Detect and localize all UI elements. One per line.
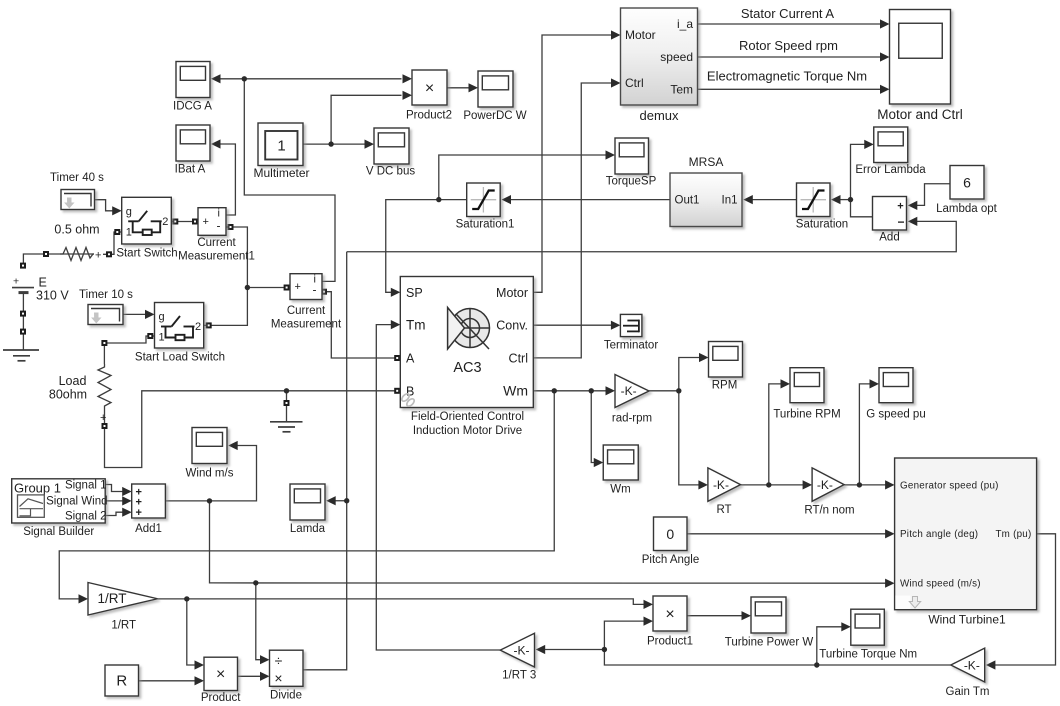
node rad-rpm output branch — [676, 388, 681, 393]
svg-text:0: 0 — [666, 526, 674, 542]
node Wm line branch 1 — [552, 388, 557, 393]
svg-text:E: E — [39, 276, 47, 290]
arrowhead into Add minus — [908, 217, 918, 226]
gain RT/n nom — [804, 468, 854, 517]
wire Gain Tm out left line — [544, 650, 951, 666]
scope Turbine RPM — [773, 368, 840, 421]
wire Product out to Divide mult input — [238, 675, 262, 677]
svg-text:speed: speed — [660, 50, 693, 64]
svg-text:Terminator: Terminator — [604, 340, 658, 352]
switch Start Switch — [116, 197, 177, 259]
svg-text:Tm (pu): Tm (pu) — [995, 529, 1031, 540]
svg-text:PowerDC W: PowerDC W — [463, 110, 526, 122]
arrowhead into RT — [698, 480, 708, 489]
node Add output branch — [848, 197, 853, 202]
svg-text:g: g — [126, 206, 132, 218]
svg-text:Out1: Out1 — [675, 195, 700, 207]
svg-text:-K-: -K- — [964, 658, 980, 672]
scope Error Lambda — [855, 127, 926, 176]
svg-text:Start Switch: Start Switch — [116, 248, 177, 260]
constant 6 Lambda opt — [936, 166, 998, 216]
wire lambda junction to Lamda scope — [335, 500, 347, 502]
port square at CM1 minus — [228, 224, 234, 230]
svg-text:Turbine Torque Nm: Turbine Torque Nm — [819, 649, 917, 661]
svg-text:Group 1: Group 1 — [14, 481, 61, 496]
port square below load resistor — [102, 423, 108, 429]
wire junction down to Divide div input — [256, 583, 261, 660]
svg-text:Turbine Power W: Turbine Power W — [725, 637, 814, 649]
arrowhead into Turbine Torque Nm — [841, 622, 851, 631]
arrowhead into Add1 input 1 — [122, 487, 132, 496]
gain 1/RT — [88, 583, 158, 632]
wire demux speed to Motor and Ctrl — [698, 56, 882, 58]
arrowhead into AC3 Tm — [391, 320, 401, 329]
arrowhead into Terminator — [611, 321, 621, 330]
scope V DC bus — [366, 128, 415, 178]
svg-text:Ctrl: Ctrl — [509, 352, 528, 366]
node RT output branch — [766, 482, 771, 487]
arrowhead into Start Load Switch g — [145, 310, 155, 319]
arrowhead into Wind Turbine1 generator speed — [885, 480, 895, 489]
wire signal builder s1 to Add1 — [105, 485, 124, 492]
scope Lamda — [290, 484, 326, 535]
wire CM2 i up across to IDCG junction — [244, 79, 335, 282]
node lambda feedback branch — [344, 498, 349, 503]
node CM1-CM2 junction — [245, 285, 250, 290]
terminator block Terminator — [604, 314, 658, 351]
svg-text:IBat A: IBat A — [175, 164, 206, 176]
gain RT — [708, 468, 741, 516]
svg-text:Product1: Product1 — [647, 636, 693, 648]
arrowhead into IDCG A — [211, 74, 221, 83]
arrowhead into demux Ctrl — [611, 78, 621, 87]
svg-text:×: × — [665, 606, 674, 623]
svg-text:−: − — [897, 215, 904, 229]
arrowhead into Motor and Ctrl 3 — [880, 85, 890, 94]
wire 1-RT out line to Product1 input1 — [158, 599, 645, 605]
svg-text:1: 1 — [277, 138, 285, 155]
wire start load switch port1 to load resistor — [104, 336, 154, 364]
svg-text:SP: SP — [406, 286, 423, 300]
svg-text:Wind m/s: Wind m/s — [186, 468, 234, 480]
scope Wind m/s — [186, 428, 234, 480]
svg-text:+: + — [100, 412, 106, 424]
multimeter block Multimeter — [253, 123, 309, 180]
scope TorqueSP — [606, 138, 657, 188]
svg-text:Add: Add — [879, 232, 899, 244]
svg-text:×: × — [425, 80, 434, 97]
wire battery minus to ground — [22, 292, 24, 350]
svg-text:-K-: -K- — [817, 478, 833, 492]
port square at CM1 plus — [192, 219, 198, 225]
arrowhead into Product input 1 — [195, 660, 205, 669]
wire AC3 Wm output line — [533, 390, 607, 392]
svg-text:Current: Current — [197, 237, 236, 249]
ground (load line) — [270, 422, 303, 432]
wire junction down to Product input1 — [187, 599, 196, 665]
svg-text:Signal Builder: Signal Builder — [23, 526, 94, 538]
svg-text:1/RT 3: 1/RT 3 — [502, 670, 536, 682]
wire battery top to resistor — [23, 254, 94, 266]
wire junction up to Product1 input2 — [604, 621, 644, 649]
product block Product2 — [406, 70, 452, 122]
wire Product2 to PowerDC W — [447, 87, 469, 89]
node IDCG/Product2 branch — [242, 76, 247, 81]
wire junction up to Turbine RPM scope — [769, 384, 782, 485]
switch Start Load Switch — [135, 303, 225, 364]
svg-text:In1: In1 — [722, 195, 738, 207]
svg-text:Signal Wind: Signal Wind — [46, 496, 107, 508]
svg-text:Saturation1: Saturation1 — [456, 219, 515, 231]
svg-text:Start Load Switch: Start Load Switch — [135, 352, 225, 364]
resistor 0.5 ohm — [54, 223, 101, 262]
sum block Add — [873, 197, 907, 244]
arrowhead into RT/n nom — [803, 480, 813, 489]
svg-text:Measurement1: Measurement1 — [178, 251, 255, 263]
svg-text:MRSA: MRSA — [689, 155, 724, 169]
arrowhead into 1/RT — [79, 594, 89, 603]
arrowhead into Wind Turbine1 wind speed — [885, 579, 895, 588]
svg-text:Timer 40 s: Timer 40 s — [50, 172, 104, 184]
scope PowerDC W — [463, 71, 526, 122]
wire IDCG junction to IDCG A scope — [218, 78, 244, 80]
arrowhead into rad-rpm — [606, 386, 616, 395]
current measurement Current Measurement1 — [178, 208, 255, 263]
arrowhead into Lamda — [326, 496, 336, 505]
port square on ground drop — [284, 400, 290, 406]
node SP/TorqueSP branch — [436, 197, 441, 202]
wire AC3 Motor to demux Motor — [533, 35, 613, 292]
wire AC3 Ctrl to demux Ctrl — [533, 83, 613, 358]
wire R to Product input2 — [139, 680, 196, 682]
wire start switch out to CM1 — [171, 221, 198, 223]
node Add1 output branch — [207, 498, 212, 503]
svg-text:Wm: Wm — [503, 383, 528, 399]
arrowhead into Product1 input 2 — [644, 617, 654, 626]
port square on load wire — [101, 340, 107, 346]
svg-text:RT/n nom: RT/n nom — [804, 505, 854, 517]
arrowhead into Wm scope — [594, 458, 604, 467]
arrowhead into Product input 2 — [195, 676, 205, 685]
wire start load switch port2 up to junction — [204, 288, 248, 326]
scope Turbine Torque Nm — [819, 609, 917, 660]
arrowhead into RPM — [699, 353, 709, 362]
svg-text:+: + — [13, 276, 19, 288]
scope G speed pu — [866, 368, 925, 421]
wire demux Tem to Motor and Ctrl — [698, 88, 882, 90]
port square battery bottom 1 — [20, 311, 26, 317]
svg-text:0.5 ohm: 0.5 ohm — [54, 223, 99, 237]
svg-text:i_a: i_a — [677, 17, 693, 31]
svg-text:Signal 1: Signal 1 — [65, 479, 107, 491]
svg-text:1: 1 — [159, 332, 165, 344]
load resistor 80ohm — [49, 364, 111, 424]
svg-text:AC3: AC3 — [453, 360, 481, 376]
wire load bottom to AC3 B port — [105, 391, 398, 468]
wire B line ground drop — [286, 391, 288, 422]
svg-text:Tm: Tm — [406, 318, 426, 333]
constant R — [105, 665, 139, 696]
arrowhead into Start Switch g — [112, 206, 122, 215]
svg-text:G speed pu: G speed pu — [866, 409, 925, 421]
arrowhead into IBat A — [211, 139, 221, 148]
wire Pitch Angle to Wind Turbine — [687, 533, 887, 535]
svg-text:Ctrl: Ctrl — [625, 76, 644, 90]
wire junction to Saturation — [840, 199, 851, 201]
scope Motor and Ctrl — [877, 10, 963, 123]
gain 1/RT 3 — [500, 633, 536, 681]
sum block Add1 — [132, 484, 166, 535]
node torque line branch — [602, 647, 607, 652]
wire demux i_a to Motor and Ctrl — [698, 23, 882, 25]
svg-text:6: 6 — [963, 174, 971, 190]
svg-text:Add1: Add1 — [135, 523, 162, 535]
saturation block Saturation — [796, 183, 848, 231]
wire Wm junction down to 1/RT — [59, 391, 554, 599]
arrowhead into TorqueSP — [606, 150, 616, 159]
svg-text:RT: RT — [716, 504, 731, 516]
arrowhead into Wind m/s — [228, 441, 238, 450]
svg-text:+: + — [295, 281, 301, 293]
svg-text:-K-: -K- — [621, 384, 637, 398]
arrowhead into AC3 SP — [391, 288, 401, 297]
svg-text:-K-: -K- — [713, 478, 729, 492]
wire junction up to RPM scope — [679, 358, 701, 391]
arrowhead into Add1 input 2 — [122, 496, 132, 505]
wire Add out to junction — [851, 200, 873, 217]
svg-text:Pitch Angle: Pitch Angle — [642, 554, 700, 566]
saturation block Saturation1 — [456, 183, 515, 231]
wire CM1 i up to IBat A — [218, 144, 236, 215]
svg-text:+: + — [95, 250, 101, 262]
svg-text:+: + — [203, 216, 209, 228]
wire Lambda opt 6 to Add plus — [916, 184, 950, 206]
scope Wm — [603, 445, 638, 496]
arrowhead into MRSA In1 — [743, 195, 753, 204]
port square at Start Switch port 2 — [172, 219, 178, 225]
constant 0 Pitch Angle — [642, 517, 700, 566]
svg-text:Error Lambda: Error Lambda — [855, 164, 926, 176]
wire junction up to G speed pu scope — [859, 384, 871, 485]
arrowhead into Saturation — [831, 195, 841, 204]
svg-text:2: 2 — [162, 216, 168, 228]
svg-text:Wind speed (m/s): Wind speed (m/s) — [900, 579, 981, 590]
svg-text:Pitch angle (deg): Pitch angle (deg) — [900, 529, 978, 540]
node turbine torque scope branch — [814, 662, 819, 667]
arrowhead into demux Motor — [611, 30, 621, 39]
port square at CM2 minus — [321, 289, 327, 295]
svg-text:+: + — [897, 201, 903, 213]
wire Wm junction down to Wm scope — [591, 391, 595, 463]
svg-text:Timer 10 s: Timer 10 s — [79, 289, 133, 301]
svg-text:Wind Turbine1: Wind Turbine1 — [928, 613, 1006, 627]
gain Gain Tm — [946, 648, 990, 698]
wire Wind Turbine Tm out down to Gain Tm — [994, 534, 1055, 665]
svg-text:Field-Oriented Control: Field-Oriented Control — [411, 411, 524, 423]
svg-text:rad-rpm: rad-rpm — [612, 413, 652, 425]
svg-text:Load: Load — [59, 374, 87, 388]
arrowhead into Motor and Ctrl 2 — [880, 52, 890, 61]
svg-text:Conv.: Conv. — [496, 319, 528, 333]
svg-text:-K-: -K- — [513, 643, 529, 657]
svg-text:Generator speed (pu): Generator speed (pu) — [900, 480, 999, 491]
svg-text:Motor: Motor — [496, 286, 528, 300]
svg-text:Tem: Tem — [670, 83, 693, 97]
svg-text:-: - — [217, 218, 221, 232]
gain rad-rpm — [612, 375, 652, 425]
svg-text:TorqueSP: TorqueSP — [606, 176, 657, 188]
arrowhead into PowerDC W — [469, 83, 479, 92]
wire signal builder s2 to Add1 — [105, 500, 124, 502]
svg-text:Gain Tm: Gain Tm — [946, 686, 990, 698]
product block Product — [201, 657, 241, 704]
svg-text:R: R — [116, 673, 127, 690]
timer block Timer 40 s — [50, 172, 104, 210]
timer block Timer 10 s — [79, 289, 133, 325]
arrowhead into Product2 input 2 — [403, 91, 413, 100]
wire IDCG junction to Product2 input1 — [244, 78, 401, 80]
scope IBat A — [175, 125, 210, 176]
wire Add1 out junction to Wind m-s scope — [165, 446, 256, 501]
scope Turbine Power W — [725, 597, 814, 649]
svg-text:Rotor Speed rpm: Rotor Speed rpm — [739, 38, 838, 53]
wire timer 10 s to start load switch g — [123, 313, 145, 315]
arrowhead into Gain Tm — [986, 660, 996, 669]
port square at AC3 B — [394, 388, 400, 394]
svg-text:2: 2 — [195, 321, 201, 333]
arrowhead into Add1 input 3 — [122, 508, 132, 517]
node Wm line branch 2 — [589, 388, 594, 393]
port square at resistor output — [106, 251, 112, 257]
arrowhead into Product1 input 1 — [644, 600, 654, 609]
wire junction down to wind speed line — [210, 501, 887, 583]
svg-text:demux: demux — [639, 108, 679, 123]
svg-text:Stator Current A: Stator Current A — [741, 6, 835, 21]
svg-text:Current: Current — [287, 305, 326, 317]
svg-text:Electromagnetic Torque Nm: Electromagnetic Torque Nm — [707, 69, 867, 84]
arrowhead into Product2 input 1 — [403, 74, 413, 83]
scope IDCG A — [173, 62, 212, 113]
arrowhead into Turbine Power W — [742, 611, 752, 620]
svg-text:Induction Motor Drive: Induction Motor Drive — [413, 425, 522, 437]
svg-text:1/RT: 1/RT — [111, 620, 136, 632]
arrowhead into Error Lambda — [864, 140, 874, 149]
signal builder block Signal Builder — [12, 479, 108, 538]
port square at CM2 plus — [284, 285, 290, 291]
wire junction up to TorqueSP — [439, 155, 606, 200]
subsystem demux — [621, 8, 698, 123]
svg-text:g: g — [159, 311, 165, 323]
subsystem MRSA — [670, 155, 742, 227]
wire timer 40 s to start switch g — [95, 200, 113, 211]
wire signal builder s3 to Add1 — [105, 512, 124, 515]
arrowhead into Wind Turbine1 pitch angle — [885, 529, 895, 538]
svg-text:1/RT: 1/RT — [97, 591, 126, 606]
arrowhead into Turbine RPM — [781, 379, 791, 388]
svg-text:Product2: Product2 — [406, 110, 452, 122]
svg-text:RPM: RPM — [712, 380, 738, 392]
arrowhead into Saturation1 — [502, 195, 512, 204]
node V DC bus branch — [328, 141, 333, 146]
svg-text:Lamda: Lamda — [290, 523, 326, 535]
port square at Start Load Switch port 1 — [147, 333, 153, 339]
svg-text:Saturation: Saturation — [796, 219, 848, 231]
node 1/RT output branch — [184, 596, 189, 601]
svg-text:IDCG A: IDCG A — [173, 101, 212, 113]
svg-text:×: × — [216, 666, 225, 683]
svg-text:Lambda opt: Lambda opt — [936, 203, 998, 215]
arrowhead into G speed pu — [870, 379, 880, 388]
wire MRSA Out1 to Saturation1 — [510, 199, 670, 201]
wire RT/n nom out to junction to Wind Turbine — [844, 484, 887, 486]
wire CM2 minus down to AC3 A port — [322, 292, 397, 358]
product block Product1 — [647, 596, 693, 648]
svg-text:Measurement: Measurement — [271, 319, 342, 331]
port square battery top — [20, 263, 26, 269]
wire Divide out up to lambda line — [303, 252, 347, 670]
svg-text:+: + — [135, 507, 141, 519]
wire Saturation1 out to junction to SP — [386, 200, 467, 293]
wire junction up to Error Lambda — [851, 144, 866, 199]
svg-text:A: A — [406, 352, 415, 366]
battery E 310 V — [12, 276, 69, 303]
node B line ground junction — [284, 388, 289, 393]
scope RPM — [709, 342, 743, 392]
svg-text:Multimeter: Multimeter — [253, 166, 309, 180]
wire CM1 minus down to junction to CM2 plus — [226, 227, 290, 288]
node RT/n nom output branch — [857, 482, 862, 487]
svg-text:×: × — [274, 670, 282, 686]
ground (battery) — [3, 350, 39, 361]
svg-text:-: - — [313, 283, 317, 297]
port square battery bottom 2 — [20, 329, 26, 335]
arrowhead into Divide div input — [260, 655, 270, 664]
wire junction up to Product2 input2 — [331, 95, 401, 144]
wire junction up to Turbine Torque Nm — [817, 627, 843, 665]
arrowhead into Motor and Ctrl 1 — [880, 19, 890, 28]
wire AC3 Conv to Terminator — [533, 324, 612, 326]
node wind speed line branch — [253, 580, 258, 585]
svg-text:Signal 2: Signal 2 — [65, 510, 107, 522]
svg-text:Divide: Divide — [270, 690, 302, 702]
current measurement Current Measurement — [271, 274, 342, 331]
wire junction down to RT gain — [679, 391, 700, 485]
subsystem AC3 Field-Oriented Control Induction Motor Drive — [400, 277, 533, 438]
svg-text:Product: Product — [201, 692, 241, 701]
svg-text:1: 1 — [126, 226, 132, 238]
port square at Start Load Switch port 2 — [206, 322, 212, 328]
svg-text:V DC bus: V DC bus — [366, 166, 415, 178]
port square at Start Switch port 1 — [114, 229, 120, 235]
port square at AC3 A — [394, 355, 400, 361]
arrowhead into 1/RT 3 — [536, 645, 546, 654]
subsystem Wind Turbine1 — [895, 458, 1037, 627]
wire rad-rpm out junction — [649, 390, 679, 392]
svg-text:Motor and Ctrl: Motor and Ctrl — [877, 107, 963, 122]
wire Saturation out to MRSA In1 — [752, 199, 797, 201]
svg-text:Turbine RPM: Turbine RPM — [773, 409, 840, 421]
wire Product1 out to Turbine Power W — [687, 615, 743, 617]
svg-text:80ohm: 80ohm — [49, 388, 87, 402]
wire lambda feedback to Add minus — [347, 221, 957, 251]
arrowhead into Add plus — [908, 201, 918, 210]
wire 1-RT 3 out to AC3 Tm — [376, 325, 500, 650]
svg-text:Wm: Wm — [610, 484, 630, 496]
port square on battery-resistor wire — [43, 251, 49, 257]
divide block Divide — [270, 650, 304, 701]
wire multimeter out junction to V DC bus — [303, 143, 365, 145]
svg-text:÷: ÷ — [275, 653, 283, 669]
